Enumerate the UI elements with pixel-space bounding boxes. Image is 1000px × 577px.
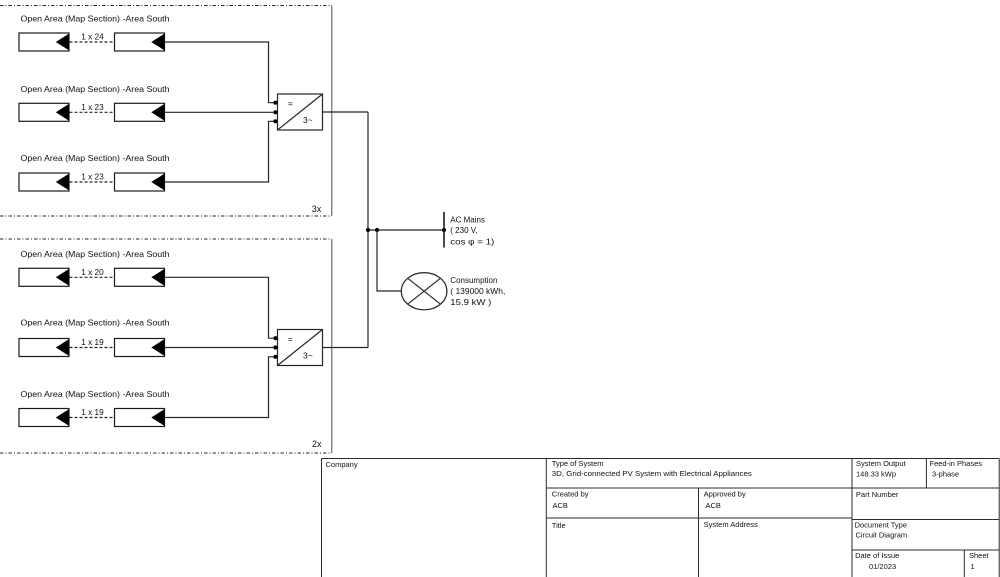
string 4 module symbol right [115,268,165,286]
svg-text:System Output: System Output [856,459,907,468]
string 4 module symbol left [19,268,69,286]
svg-text:1 x 23: 1 x 23 [81,173,104,182]
string 6 label [21,389,170,399]
string 3 module symbol right [115,173,165,191]
string 4 wire to inverter [165,277,278,338]
junction node consumption tee [375,228,379,232]
svg-text:Open Area (Map Section) -Area: Open Area (Map Section) -Area South [21,84,170,94]
AC bus vertical wire [367,112,369,348]
svg-text:01/2023: 01/2023 [869,562,896,571]
svg-text:Open Area (Map Section) -Area: Open Area (Map Section) -Area South [21,389,170,399]
title block texts [326,459,990,571]
AC mains feeder wire [368,229,444,231]
string 6 module symbol left [19,409,69,427]
string 2 label [21,84,170,94]
svg-text:148.33 kWp: 148.33 kWp [856,470,896,479]
svg-text:ACB: ACB [706,501,721,510]
inverter U2 AC output wire [323,347,369,349]
string 1 module symbol right [115,33,165,51]
inverter U2 input terminal dots [273,336,277,359]
string 2 dashed string wire [70,111,115,113]
string 3 wire to inverter [165,121,278,182]
string 5 dashed string wire [70,347,115,349]
svg-text:Type of System: Type of System [552,459,604,468]
svg-text:Date of Issue: Date of Issue [855,551,899,560]
svg-text:=: = [288,334,293,344]
svg-text:1: 1 [971,562,975,571]
svg-text:1 x 20: 1 x 20 [81,268,104,277]
AC mains label [450,215,494,246]
svg-text:=: = [288,98,293,108]
svg-text:( 230 V,: ( 230 V, [450,226,477,235]
svg-text:Circuit Diagram: Circuit Diagram [856,531,908,540]
svg-text:3-phase: 3-phase [932,470,959,479]
array group box 2 (dashed top/bottom, solid right edge) [0,239,332,453]
group 1 multiplier label 3x [312,204,322,214]
string 4 count label 1 x 20 [81,268,104,277]
string 1 wire to inverter [165,42,278,103]
svg-text:2x: 2x [312,439,322,449]
string 4 dashed string wire [70,276,115,278]
string 6 module symbol right [115,409,165,427]
svg-text:1 x 19: 1 x 19 [81,408,104,417]
svg-text:Open Area (Map Section) -Area: Open Area (Map Section) -Area South [21,14,170,24]
svg-text:15.9 kW ): 15.9 kW ) [450,298,491,307]
string 6 wire to inverter [165,357,278,418]
svg-text:1 x 24: 1 x 24 [81,33,104,42]
svg-text:Open Area (Map Section) -Area: Open Area (Map Section) -Area South [21,318,170,328]
svg-text:Title: Title [552,521,566,530]
svg-text:( 139000 kWh,: ( 139000 kWh, [450,287,505,296]
svg-text:3~: 3~ [303,115,313,125]
inverter U2 [278,330,323,366]
svg-text:ACB: ACB [553,501,568,510]
svg-text:Open Area (Map Section) -Area: Open Area (Map Section) -Area South [21,249,170,259]
string 2 module symbol right [115,103,165,121]
string 5 count label 1 x 19 [81,338,104,347]
string 2 module symbol left [19,103,69,121]
AC mains terminal node [442,228,446,232]
svg-text:System Address: System Address [704,520,758,529]
group 2 multiplier label 2x [312,439,322,449]
svg-text:Consumption: Consumption [450,276,497,285]
svg-text:Part Number: Part Number [856,490,899,499]
consumption symbol (crossed circle) [401,273,447,310]
svg-text:3D, Grid-connected PV System w: 3D, Grid-connected PV System with Electr… [552,469,752,478]
string 4 label [21,249,170,259]
svg-text:Sheet: Sheet [969,551,990,560]
svg-text:Created by: Created by [552,490,589,499]
svg-text:Feed-in Phases: Feed-in Phases [930,459,983,468]
string 5 module symbol left [19,339,69,357]
inverter U1 [278,94,323,130]
inverter U1 AC output wire [323,111,369,113]
svg-text:1 x 23: 1 x 23 [81,103,104,112]
consumption branch wire [377,230,402,291]
string 1 module symbol left [19,33,69,51]
svg-text:Open Area (Map Section) -Area: Open Area (Map Section) -Area South [21,153,170,163]
consumption label [450,276,505,307]
string 5 module symbol right [115,339,165,357]
string 1 dashed string wire [70,41,115,43]
inverter U1 input terminal dots [273,101,277,124]
string 6 count label 1 x 19 [81,408,104,417]
string 2 count label 1 x 23 [81,103,104,112]
svg-text:Document Type: Document Type [855,521,907,530]
string 3 label [21,153,170,163]
svg-text:1 x 19: 1 x 19 [81,338,104,347]
string 3 dashed string wire [70,181,115,183]
svg-text:Approved by: Approved by [704,490,746,499]
junction node on bus [366,228,370,232]
array group box 1 (dashed top/bottom, solid right edge) [0,6,332,217]
string 2 wire to inverter [165,111,278,113]
string 5 label [21,318,170,328]
svg-text:3~: 3~ [303,350,313,360]
string 5 wire to inverter [165,347,278,349]
string 3 count label 1 x 23 [81,173,104,182]
svg-text:AC Mains: AC Mains [450,215,485,224]
string 3 module symbol left [19,173,69,191]
svg-text:Company: Company [326,460,358,469]
svg-text:3x: 3x [312,204,322,214]
title block grid lines [322,459,1000,577]
AC mains bar symbol [443,212,445,248]
svg-text:cos φ = 1): cos φ = 1) [450,237,494,246]
string 1 count label 1 x 24 [81,33,104,42]
string 1 label [21,14,170,24]
string 6 dashed string wire [70,417,115,419]
